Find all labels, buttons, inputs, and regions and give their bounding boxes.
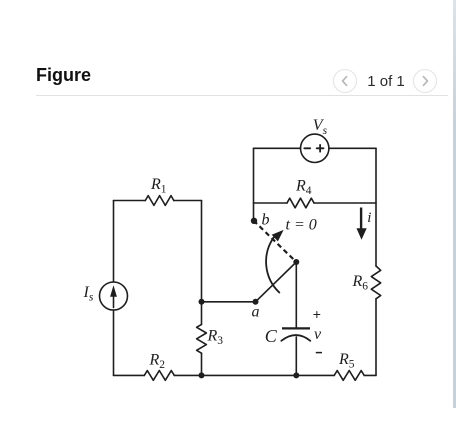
svg-text:R6: R6 — [352, 273, 369, 293]
voltage source Vs minus sign — [304, 147, 310, 149]
wire bottom middle segment (R2 to R5) — [174, 374, 334, 376]
resistor R2 — [144, 371, 174, 381]
switch blade (solid arm from a to pivot) — [256, 262, 297, 302]
svg-text:a: a — [252, 303, 260, 320]
current source Is arrowhead — [110, 285, 117, 297]
wire b stub (Vs loop left vertical down to b) — [253, 148, 255, 220]
wire node to switch terminal a — [202, 301, 256, 303]
svg-text:C: C — [265, 326, 278, 346]
node junction dot (mid vertical / a-wire) — [199, 299, 205, 305]
svg-text:Is: Is — [83, 284, 94, 304]
node b dot — [251, 218, 257, 224]
resistor R6 — [371, 266, 380, 299]
node a dot — [253, 299, 259, 305]
wire Vs top left segment — [254, 147, 301, 149]
junction dot (capacitor bottom) — [293, 372, 299, 378]
svg-text:R1: R1 — [150, 176, 167, 196]
resistor R1 — [145, 196, 174, 206]
wire mid vertical lower (R3 to bottom) — [201, 353, 203, 375]
resistor R3 — [197, 324, 207, 353]
svg-text:Vs: Vs — [313, 117, 328, 137]
wire capacitor branch lower (C to bottom) — [295, 337, 297, 376]
wire R4 row left segment — [254, 202, 288, 204]
switch motion arc — [266, 237, 279, 293]
svg-text:+: + — [313, 306, 321, 322]
wire top-left segment (right of R1) — [174, 200, 202, 202]
wire top-left segment (left of R1) — [114, 200, 146, 202]
wire left rail lower (Is to bottom) — [113, 310, 115, 375]
voltage source Vs plus sign — [317, 145, 324, 152]
svg-text:R3: R3 — [207, 328, 224, 348]
voltage source Vs circle — [301, 134, 329, 162]
wire bottom left segment (rail to R2) — [114, 374, 145, 376]
wire R4 row right segment — [314, 202, 376, 204]
junction dot (R3 bottom) — [199, 372, 205, 378]
label v minus polarity — [316, 352, 322, 354]
current arrow i head — [357, 228, 367, 240]
wire right rail lower (R6 to bottom) — [375, 299, 377, 376]
prev page button — [333, 69, 357, 93]
wire mid vertical upper (R1 corner to node) — [201, 201, 203, 325]
svg-text:R5: R5 — [338, 351, 355, 371]
wire right rail upper (to R6) — [375, 148, 377, 266]
next page button — [413, 69, 437, 93]
wire capacitor branch upper (pivot to C) — [295, 262, 297, 327]
wire Vs top right segment — [329, 147, 376, 149]
svg-text:i: i — [367, 210, 371, 226]
resistor R4 — [287, 198, 314, 208]
svg-text:R4: R4 — [295, 178, 312, 198]
svg-text:v: v — [314, 326, 322, 343]
capacitor C top plate — [282, 327, 310, 329]
switch arc arrowhead — [272, 230, 284, 242]
capacitor C bottom curved plate — [281, 335, 310, 341]
wire bottom right segment (R5 to rail) — [364, 374, 376, 376]
switch dashed arm (b to pivot) — [254, 221, 297, 263]
switch pivot dot — [293, 259, 299, 265]
svg-text:R2: R2 — [149, 352, 166, 372]
current source Is circle — [100, 282, 128, 310]
wire left rail upper (to Is) — [113, 201, 115, 283]
current source Is arrow stem — [113, 294, 115, 308]
current arrow i stem — [360, 208, 362, 230]
svg-text:t = 0: t = 0 — [286, 217, 317, 234]
resistor R5 — [334, 371, 364, 381]
svg-text:b: b — [262, 211, 270, 228]
